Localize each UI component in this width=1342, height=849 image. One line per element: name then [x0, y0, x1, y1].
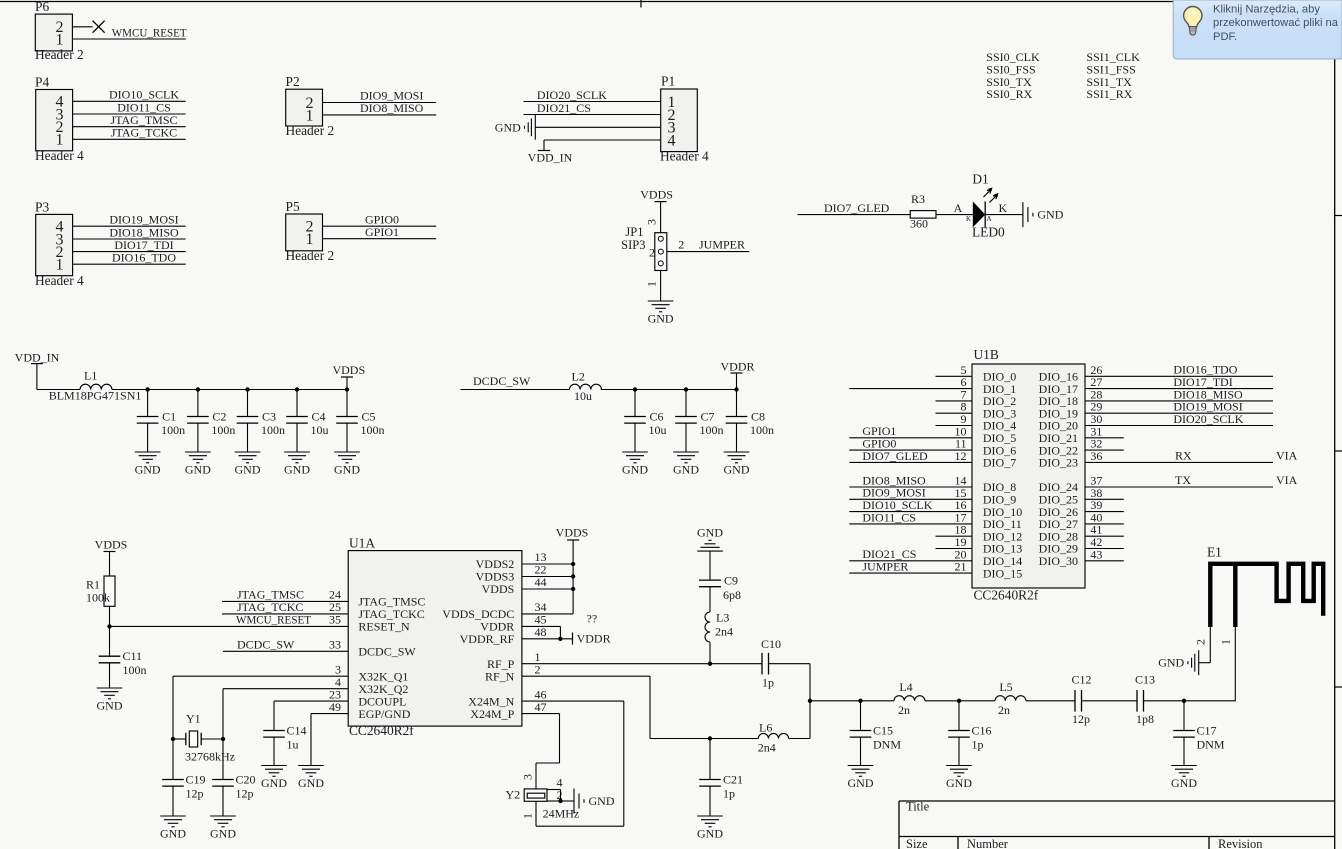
U1B pin 6 DIO_1	[849, 375, 1016, 396]
svg-text:GND: GND	[298, 776, 324, 790]
U1B pin 37 DIO_24 net TX	[1039, 473, 1298, 494]
svg-text:Kliknij Narzędzia, aby: Kliknij Narzędzia, aby	[1213, 4, 1320, 16]
U1A pin 13 VDDS2	[476, 550, 547, 571]
ground at P1 pin3	[495, 115, 536, 140]
svg-text:SSI0_RX: SSI0_RX	[986, 87, 1032, 101]
U1B pin 9 DIO_4	[936, 412, 1017, 433]
connector P1 (Header 4)	[660, 73, 709, 163]
wire RF_N line	[522, 676, 758, 738]
jumper JP1 SIP3	[621, 225, 667, 270]
svg-text:32768kHz: 32768kHz	[185, 750, 235, 764]
svg-text:CC2640R2f: CC2640R2f	[974, 587, 1039, 602]
U1A pin 46 X24M_N	[468, 687, 546, 708]
U1A pin 2 RF_N	[485, 662, 541, 683]
ground below C3	[235, 452, 261, 477]
wire VDDS riser to pins 13/22/44/34	[522, 540, 573, 614]
svg-text:VIA: VIA	[1276, 449, 1298, 463]
svg-text:C16: C16	[972, 724, 992, 738]
svg-text:WMCU_RESET: WMCU_RESET	[236, 612, 312, 626]
wire E1 pin2 to GND	[1199, 627, 1211, 663]
svg-text:33: 33	[329, 638, 341, 652]
PDF converter tooltip popup	[1173, 0, 1342, 59]
no-connect X on P6 pin2	[93, 21, 105, 33]
U1B pin 42 DIO_29	[1039, 535, 1124, 556]
U1A pin 24 JTAG_TMSC net JTAG_TMSC	[222, 587, 425, 608]
svg-text:DIO16_TDO: DIO16_TDO	[112, 251, 176, 265]
junction VDDS pin22	[571, 574, 575, 578]
svg-text:C10: C10	[761, 637, 781, 651]
IC U1A CC2640R2f (main)	[348, 536, 522, 739]
capacitor C19 12p	[162, 739, 205, 816]
svg-text:C14: C14	[287, 724, 307, 738]
junction VDDS rail 1	[145, 387, 149, 391]
svg-text:DIO21_CS: DIO21_CS	[537, 101, 591, 115]
wire JP1 pin1 to GND	[660, 271, 662, 302]
power port VDDS at JP1	[640, 188, 673, 202]
U1B pin 16 DIO_10 net DIO10_SCLK	[849, 498, 1022, 519]
ground below C19	[160, 816, 186, 841]
svg-text:Number: Number	[967, 837, 1009, 849]
svg-text:GND: GND	[622, 463, 648, 477]
capacitor C12 12p (series)	[1071, 673, 1091, 727]
svg-text:JTAG_TCKC: JTAG_TCKC	[111, 126, 177, 140]
svg-text:Header 4: Header 4	[660, 149, 709, 164]
svg-text:Size: Size	[906, 837, 928, 849]
U1B pin 26 DIO_16 net DIO16_TDO	[1039, 363, 1273, 384]
inductor L5 2n	[995, 680, 1026, 717]
svg-text:TX: TX	[1175, 473, 1191, 487]
svg-text:DIO_23: DIO_23	[1039, 456, 1078, 470]
U1B pin 36 DIO_23 net RX	[1039, 449, 1298, 470]
U1A pin 22 VDDS3	[476, 563, 547, 584]
svg-text:3: 3	[645, 219, 659, 225]
svg-text:C4: C4	[312, 409, 326, 423]
svg-text:E1: E1	[1207, 545, 1222, 560]
U1B pin 8 DIO_3	[936, 400, 1017, 421]
svg-text:360: 360	[910, 217, 928, 231]
svg-text:2: 2	[535, 662, 541, 676]
U1B pin 40 DIO_27	[1039, 510, 1124, 531]
ground below JP1	[648, 301, 674, 326]
svg-text:L5: L5	[999, 680, 1012, 694]
svg-text:3: 3	[521, 774, 535, 780]
inductor L3 2n4	[705, 611, 733, 664]
svg-text:C15: C15	[873, 724, 893, 738]
svg-text:1: 1	[521, 813, 535, 819]
svg-text:100n: 100n	[211, 423, 235, 437]
svg-text:VDDS: VDDS	[332, 363, 365, 377]
svg-text:DIO_15: DIO_15	[983, 566, 1022, 580]
U1A pin 35 RESET_N net WMCU_RESET	[236, 612, 410, 633]
capacitor C8 100n	[726, 390, 774, 453]
ground below C5	[334, 452, 360, 477]
U1A pin 3 X32K_Q1	[173, 662, 408, 683]
svg-text:1p: 1p	[723, 787, 735, 801]
svg-text:C5: C5	[362, 409, 376, 423]
wire net DCDC_SW to L2	[460, 374, 569, 390]
svg-text:1p: 1p	[762, 676, 774, 690]
ground above C9	[697, 526, 723, 552]
inductor L2 10u	[570, 370, 602, 403]
U1A pin 1 RF_P	[487, 650, 541, 671]
svg-text:K: K	[999, 201, 1008, 215]
svg-text:RF_N: RF_N	[485, 669, 515, 683]
svg-text:GND: GND	[495, 120, 521, 134]
wire pin45 VDDR to pin48	[522, 626, 561, 638]
svg-text:VDD_IN: VDD_IN	[15, 351, 60, 365]
junction VDDS rail 3	[245, 387, 249, 391]
wire P6 pin1 net WMCU_RESET	[72, 25, 187, 39]
crystal Y1 32768kHz	[173, 712, 235, 764]
svg-text:GND: GND	[648, 312, 674, 326]
svg-text:36: 36	[1090, 449, 1102, 463]
U1B pin 18 DIO_12	[936, 523, 1023, 544]
U1B pin 12 DIO_7 net DIO7_GLED	[849, 449, 1016, 470]
inductor L4 2n	[894, 680, 925, 717]
svg-text:GND: GND	[185, 463, 211, 477]
svg-text:10u: 10u	[311, 423, 329, 437]
svg-text:GND: GND	[946, 776, 972, 790]
svg-text:VDDS: VDDS	[640, 188, 673, 202]
svg-text:RESET_N: RESET_N	[358, 620, 410, 634]
wire P1 pin2 net DIO21_CS	[524, 101, 661, 115]
svg-text:Y1: Y1	[186, 712, 201, 726]
svg-text:A: A	[954, 201, 963, 215]
wire pin48 VDDR_RF	[522, 638, 573, 640]
svg-text:GND: GND	[673, 463, 699, 477]
junction RF node	[808, 699, 812, 703]
U1B pin 41 DIO_28	[1039, 523, 1124, 544]
capacitor C2 100n	[187, 390, 235, 453]
svg-text:12: 12	[955, 449, 967, 463]
svg-text:47: 47	[535, 700, 547, 714]
svg-text:1p8: 1p8	[1136, 712, 1154, 726]
svg-text:Header 2: Header 2	[286, 123, 335, 138]
lightbulb icon	[1184, 7, 1202, 36]
svg-text:C19: C19	[186, 773, 206, 787]
svg-text:CC2640R2f: CC2640R2f	[349, 723, 414, 738]
svg-text:P6: P6	[35, 0, 49, 14]
power port VDD_IN at P1	[528, 151, 573, 165]
svg-text:P2: P2	[286, 74, 300, 89]
svg-text:VDDR: VDDR	[720, 360, 754, 374]
svg-text:100n: 100n	[700, 423, 724, 437]
svg-text:Header 2: Header 2	[286, 248, 335, 263]
svg-text:DIO11_CS: DIO11_CS	[862, 510, 916, 524]
wire RF chain	[810, 700, 1235, 702]
wire L6 to RF node	[789, 701, 810, 739]
junction Y1 left	[171, 737, 175, 741]
svg-text:DIO20_SCLK: DIO20_SCLK	[1173, 412, 1243, 426]
svg-text:49: 49	[329, 700, 341, 714]
svg-text:DIO7_GLED: DIO7_GLED	[862, 449, 928, 463]
wire net DIO7_GLED to R3	[798, 201, 911, 215]
ground below C11	[97, 688, 123, 713]
svg-text:przekonwertować pliki na: przekonwertować pliki na	[1213, 17, 1339, 29]
connector P5 (Header 2)	[286, 199, 335, 263]
svg-text:VDDR_RF: VDDR_RF	[460, 632, 515, 646]
U1B pin 29 DIO_19 net DIO19_MOSI	[1039, 400, 1273, 421]
svg-text:GND: GND	[1171, 776, 1197, 790]
svg-text:C3: C3	[262, 409, 276, 423]
svg-text:Revision: Revision	[1218, 837, 1263, 849]
svg-text:35: 35	[329, 613, 341, 627]
svg-text:C17: C17	[1197, 724, 1217, 738]
power port VDD_IN	[15, 351, 60, 390]
U1B pin 43 DIO_30	[1039, 547, 1124, 568]
U1B pin 32 DIO_22	[1039, 437, 1124, 458]
net stub VDDR with unknown marker	[573, 611, 611, 645]
ground below C15	[848, 766, 874, 791]
svg-text:GND: GND	[334, 463, 360, 477]
U1A pin 25 JTAG_TCKC net JTAG_TCKC	[222, 600, 425, 621]
svg-text:C1: C1	[162, 409, 176, 423]
svg-text:GND: GND	[135, 463, 161, 477]
svg-text:1: 1	[1219, 639, 1233, 645]
wire VDDS to JP1 pin3	[660, 202, 662, 233]
wire P2 net DIO9_MOSI	[323, 89, 437, 103]
connector P4 (Header 4)	[35, 75, 84, 164]
svg-text:Y2: Y2	[506, 788, 521, 802]
svg-text:DIO_30: DIO_30	[1039, 554, 1078, 568]
junction VDDS rail 4	[295, 387, 299, 391]
capacitor C13 1p8 (series)	[1135, 673, 1155, 727]
svg-text:100n: 100n	[261, 423, 285, 437]
U1A pin 4 X32K_Q2	[223, 675, 408, 696]
svg-text:C12: C12	[1071, 673, 1091, 687]
svg-text:GND: GND	[160, 827, 186, 841]
svg-text:C11: C11	[123, 649, 143, 663]
svg-text:U1B: U1B	[974, 347, 999, 362]
U1A pin 48 VDDR_RF	[460, 625, 547, 646]
svg-text:Title: Title	[906, 800, 930, 814]
svg-text:P5: P5	[286, 199, 300, 214]
svg-text:VDDS: VDDS	[95, 538, 128, 552]
svg-text:2: 2	[1194, 639, 1208, 645]
capacitor C11 100n	[99, 626, 147, 688]
resistor R3 360	[910, 192, 936, 231]
ground at D1	[1023, 202, 1064, 227]
junction VDDR rail 2	[684, 387, 688, 391]
capacitor C4 10u	[286, 390, 328, 453]
U1B pin 21 DIO_15 net JUMPER	[849, 560, 1022, 581]
svg-text:VDDS: VDDS	[482, 582, 515, 596]
U1A pin 45 VDDR	[480, 613, 546, 634]
junction L3/RF_P	[708, 662, 712, 666]
svg-text:BLM18PG471SN1: BLM18PG471SN1	[49, 388, 142, 402]
sheet zone tick right 1	[1335, 215, 1342, 217]
svg-text:C13: C13	[1135, 673, 1155, 687]
wire P4 net JTAG_TMSC	[73, 113, 186, 127]
svg-text:10u: 10u	[649, 423, 667, 437]
ground below C14	[261, 766, 287, 791]
svg-text:RX: RX	[1175, 449, 1192, 463]
svg-text:100n: 100n	[161, 423, 185, 437]
capacitor C20 12p	[212, 739, 255, 816]
antenna E1 meander	[1207, 545, 1323, 628]
wire P3 net DIO18_MISO	[73, 225, 186, 239]
connector P2 (Header 2)	[286, 74, 335, 138]
capacitor C16 1p	[948, 701, 991, 766]
svg-text:D1: D1	[972, 172, 988, 187]
capacitor C14 1u	[263, 701, 306, 765]
svg-text:DCDC_SW: DCDC_SW	[358, 645, 416, 659]
svg-text:JUMPER: JUMPER	[699, 238, 745, 252]
ground below C4	[284, 452, 310, 477]
wire EGP/GND to ground	[310, 714, 312, 766]
svg-text:GND: GND	[697, 526, 723, 540]
svg-text:4: 4	[668, 132, 676, 149]
capacitor C21 1p	[699, 739, 743, 817]
wire R3 to D1 anode	[936, 201, 973, 215]
U1A pin 33 DCDC_SW net DCDC_SW	[223, 637, 416, 658]
junction Y2 gnd pins	[558, 799, 562, 803]
wire P1 pin3 to GND	[535, 126, 660, 128]
svg-text:DIO8_MISO: DIO8_MISO	[360, 101, 424, 115]
U1B pin 19 DIO_13	[936, 535, 1023, 556]
connector P3 (Header 4)	[35, 200, 84, 289]
svg-text:2: 2	[678, 238, 684, 252]
capacitor C3 100n	[237, 390, 285, 453]
svg-text:GND: GND	[235, 463, 261, 477]
svg-text:K: K	[966, 215, 971, 223]
wire P3 net DIO16_TDO	[73, 251, 186, 265]
svg-text:X24M_P: X24M_P	[470, 707, 514, 721]
svg-text:100n: 100n	[361, 423, 385, 437]
ground below C20	[210, 816, 236, 841]
svg-text:L2: L2	[572, 370, 585, 384]
svg-text:L1: L1	[84, 368, 97, 382]
junction VDDS pin13	[571, 562, 575, 566]
svg-text:DIO7_GLED: DIO7_GLED	[824, 201, 890, 215]
sheet top border	[0, 1, 1335, 3]
svg-text:P4: P4	[35, 75, 49, 90]
svg-text:DIO_7: DIO_7	[983, 456, 1016, 470]
svg-text:48: 48	[535, 625, 547, 639]
svg-text:100k: 100k	[86, 591, 110, 605]
capacitor C17 DNM	[1173, 701, 1225, 766]
svg-text:GPIO1: GPIO1	[365, 225, 399, 239]
svg-text:GND: GND	[1158, 656, 1184, 670]
U1B pin 39 DIO_26	[1039, 498, 1124, 519]
svg-text:Header 4: Header 4	[35, 148, 84, 163]
wire P5 net GPIO1	[323, 225, 437, 239]
U1A pin 47 X24M_P	[470, 700, 546, 721]
wire WMCU_RESET to U1A pin35	[110, 625, 349, 627]
ground below C7	[673, 452, 699, 477]
svg-text:GND: GND	[284, 463, 310, 477]
wire Y2 to GND	[561, 800, 575, 802]
svg-text:44: 44	[535, 575, 547, 589]
svg-text:C6: C6	[650, 409, 664, 423]
svg-text:R3: R3	[911, 192, 925, 206]
wire P2 net DIO8_MISO	[323, 101, 437, 115]
capacitor C10 1p (series)	[761, 637, 781, 690]
wire P1 pin1 net DIO20_SCLK	[524, 88, 661, 102]
svg-text:1p: 1p	[972, 738, 984, 752]
U1B pin 10 DIO_5 net GPIO1	[849, 424, 1016, 445]
svg-text:VDDS: VDDS	[556, 526, 589, 540]
svg-text:A: A	[987, 215, 992, 223]
svg-text:VDDR: VDDR	[577, 632, 611, 646]
svg-text:12p: 12p	[1072, 712, 1090, 726]
capacitor C9 6p8	[699, 551, 741, 612]
sheet zone tick right 2	[1335, 450, 1342, 452]
svg-text:GND: GND	[210, 827, 236, 841]
svg-text:GND: GND	[97, 699, 123, 713]
svg-text:PDF.: PDF.	[1213, 31, 1237, 43]
svg-text:JUMPER: JUMPER	[862, 560, 908, 574]
junction VDDS rail 5	[345, 387, 349, 391]
svg-text:DCDC_SW: DCDC_SW	[473, 374, 531, 388]
ground at Y2	[574, 789, 615, 814]
U1B pin 17 DIO_11 net DIO11_CS	[849, 510, 1021, 531]
sheet right border	[1334, 2, 1336, 849]
svg-text:WMCU_RESET: WMCU_RESET	[112, 25, 188, 39]
ground below C16	[946, 766, 972, 791]
crystal Y2 24MHz	[506, 776, 580, 821]
svg-text:1: 1	[56, 257, 64, 274]
wire P6 pin2	[72, 26, 92, 28]
power port VDDS at R1	[95, 538, 128, 577]
svg-text:1: 1	[306, 231, 314, 248]
svg-text:C7: C7	[701, 409, 715, 423]
svg-text:12p: 12p	[236, 787, 254, 801]
junction VDDR rail 3	[734, 387, 738, 391]
svg-text:L6: L6	[759, 721, 772, 735]
svg-text:C21: C21	[723, 773, 743, 787]
svg-text:C8: C8	[751, 409, 765, 423]
svg-text:P1: P1	[661, 73, 675, 88]
wire X32K_Q1 to Y1	[172, 676, 174, 739]
inductor L6 2n4 (series)	[758, 721, 789, 755]
junction VDDS rail 2	[196, 387, 200, 391]
svg-text:GND: GND	[589, 794, 615, 808]
ground below EGP/GND	[298, 766, 324, 791]
svg-text:1: 1	[306, 107, 314, 124]
sheet zone tick right 3	[1335, 686, 1342, 688]
U1B pin 14 DIO_8 net DIO8_MISO	[849, 473, 1016, 494]
power port VDDS above C5	[332, 363, 365, 390]
net names SSI1	[1086, 50, 1140, 101]
wire X24M_N loop	[522, 701, 624, 826]
svg-text:GND: GND	[848, 776, 874, 790]
svg-text:100n: 100n	[750, 423, 774, 437]
capacitor C6 10u	[624, 390, 666, 453]
svg-text:C2: C2	[212, 409, 226, 423]
U1B pin 7 DIO_2	[936, 387, 1017, 408]
wire X24M_P to Y2	[522, 714, 560, 763]
U1A pin 34 VDDS_DCDC	[442, 600, 546, 621]
connector P6 (Header 2)	[35, 0, 84, 62]
wire P3 net DIO19_MOSI	[73, 213, 186, 227]
junction VDDR_RF	[558, 637, 562, 641]
svg-text:U1A: U1A	[349, 536, 375, 551]
svg-text:2n4: 2n4	[715, 625, 733, 639]
ground below C1	[135, 452, 161, 477]
svg-text:1: 1	[56, 31, 64, 48]
junction VDDR rail 1	[633, 387, 637, 391]
LED D1 LED0	[966, 172, 1008, 240]
power port VDDR	[720, 360, 754, 390]
svg-text:L4: L4	[899, 680, 912, 694]
svg-text:DNM: DNM	[1197, 738, 1225, 752]
U1B pin 20 DIO_14 net DIO21_CS	[849, 547, 1022, 568]
svg-text:DCDC_SW: DCDC_SW	[237, 637, 295, 651]
svg-text:21: 21	[955, 560, 967, 574]
net names SSI0	[986, 50, 1040, 101]
junction VDDS pin44	[571, 587, 575, 591]
